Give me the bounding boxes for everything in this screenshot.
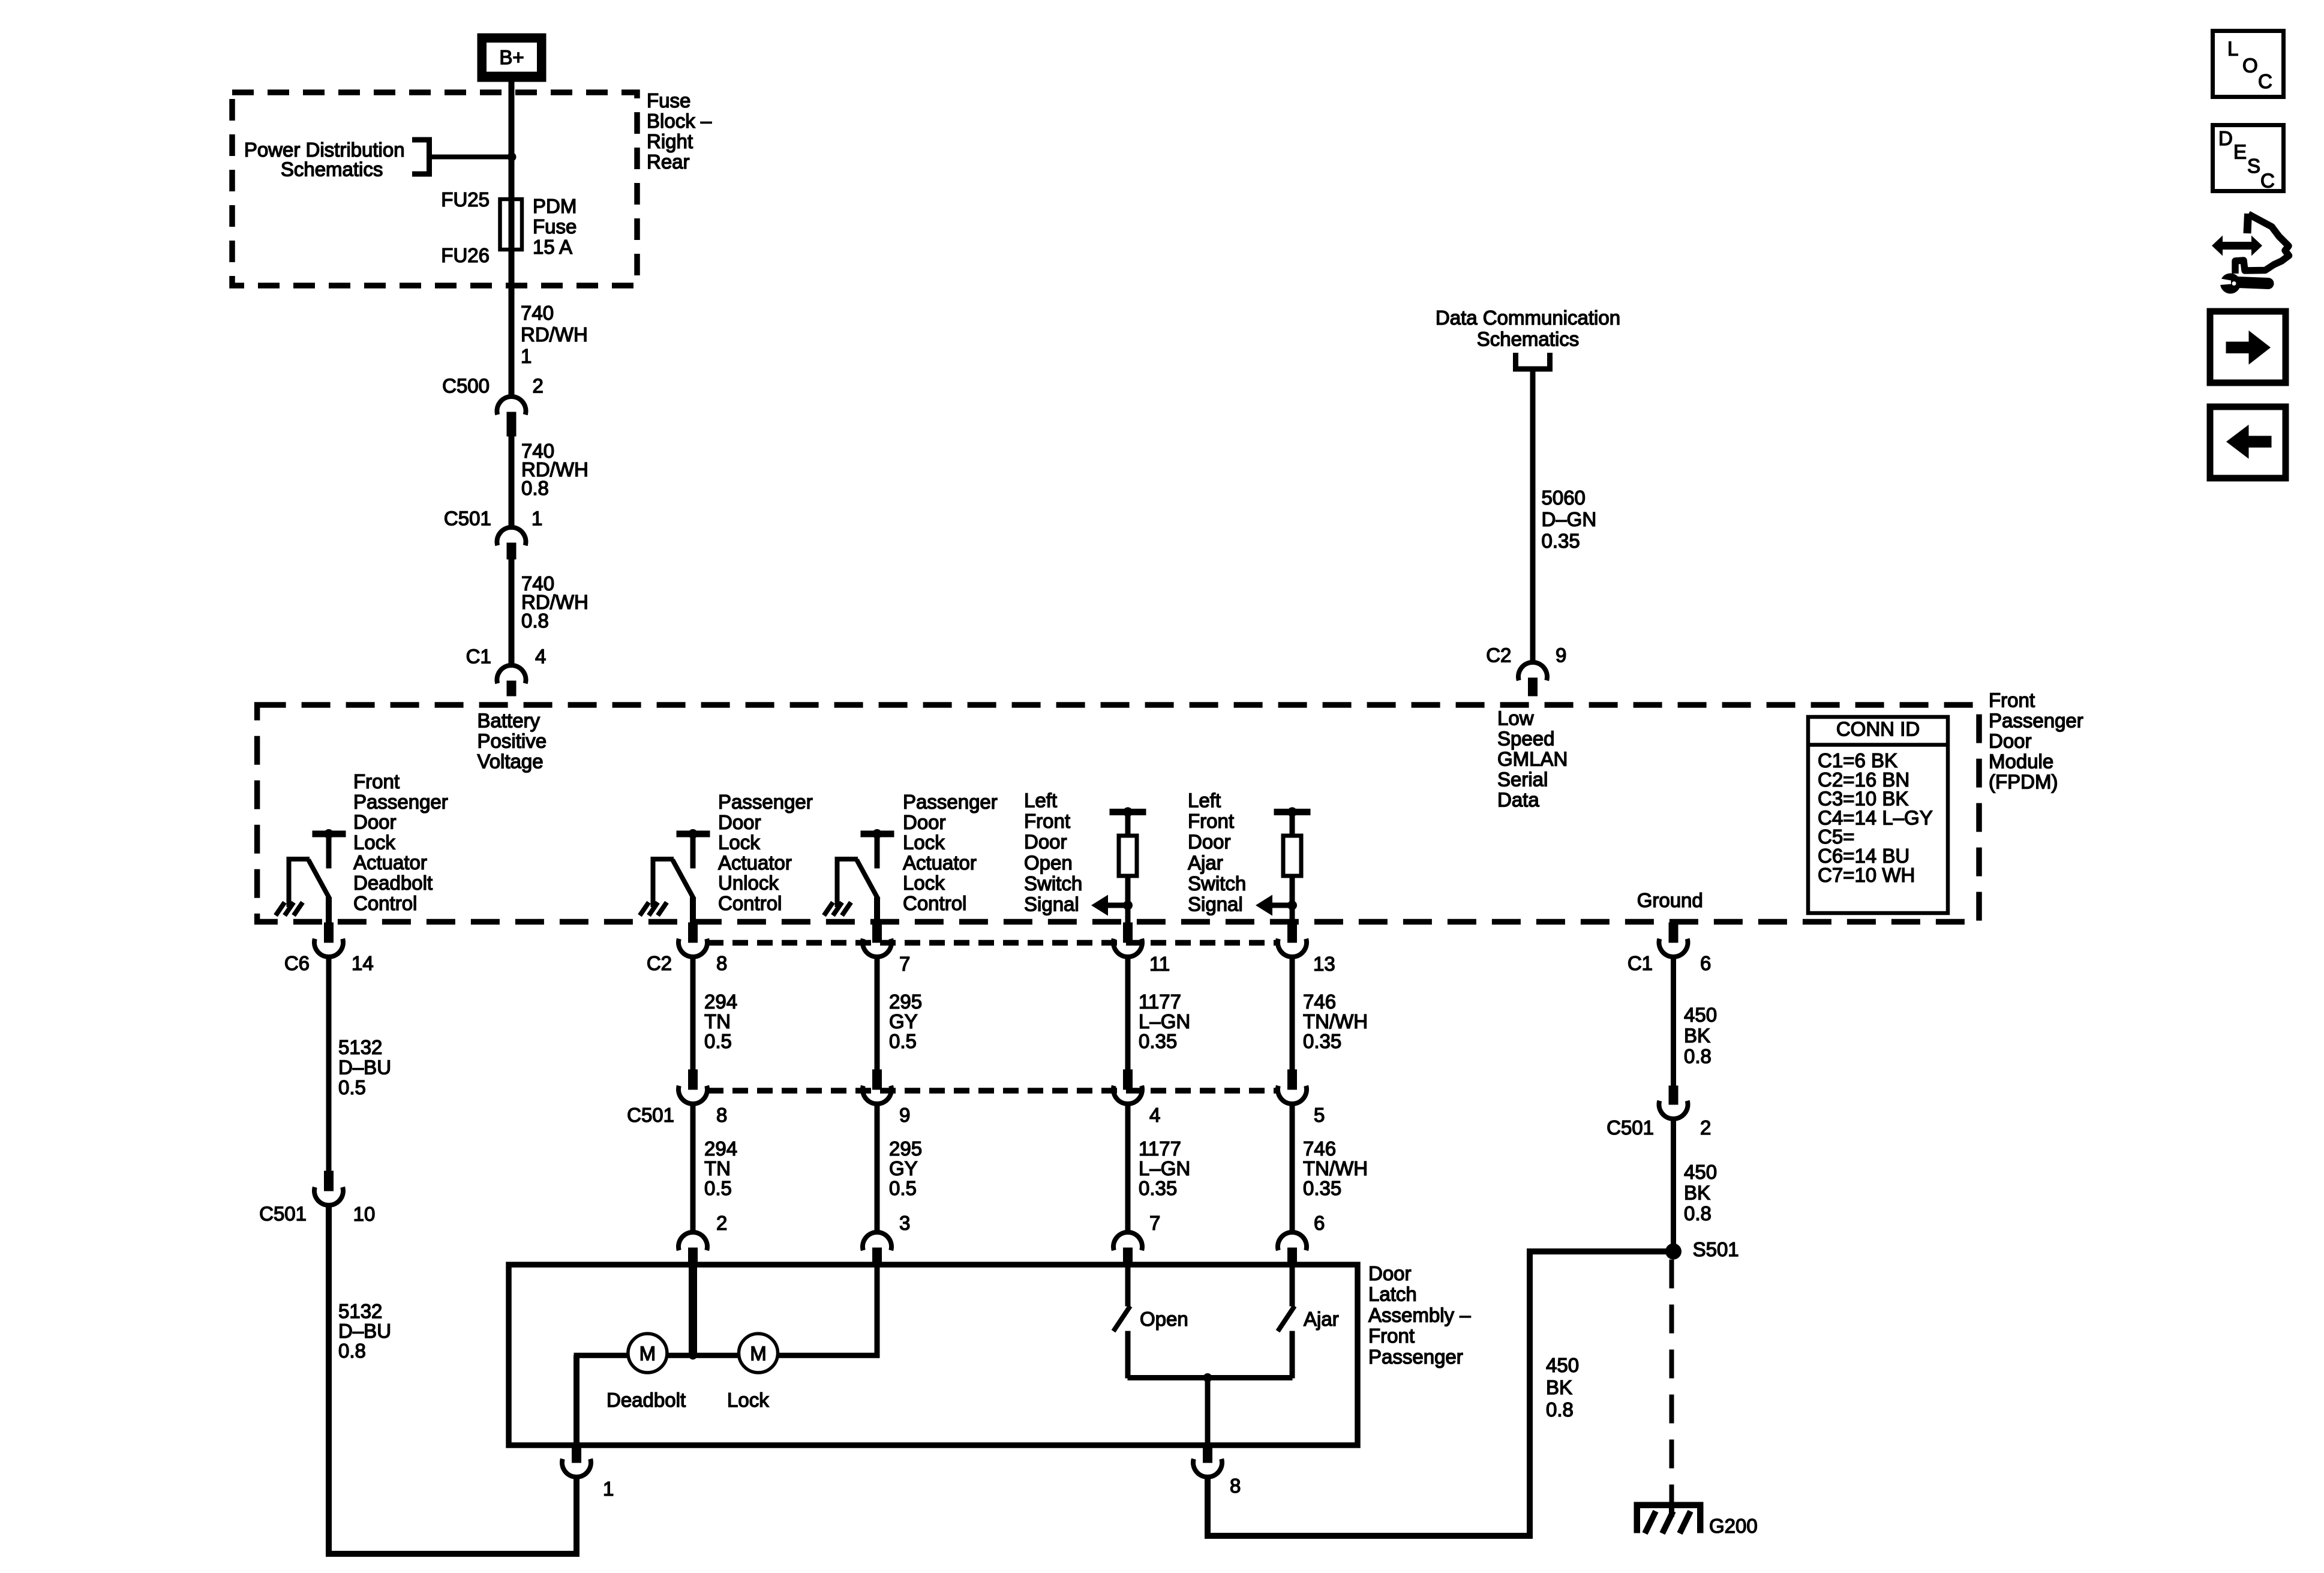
wire 1177 C501 to latch pin 7: [1125, 1104, 1130, 1232]
svg-text:BK: BK: [1684, 1025, 1710, 1047]
svg-text:Open: Open: [1024, 851, 1073, 873]
label pin 8 of C501: [716, 1104, 727, 1126]
wire: pin 1 drop: [574, 1477, 580, 1557]
svg-text:Switch: Switch: [1024, 872, 1082, 894]
label latch pin 8: [1230, 1475, 1241, 1497]
label: wire 450 BK 0.8: [1684, 1004, 1717, 1067]
svg-text:7: 7: [1149, 1212, 1160, 1234]
svg-text:746: 746: [1303, 1137, 1336, 1160]
svg-text:Front: Front: [1989, 689, 2035, 712]
connector C501 pin 8: [678, 1070, 707, 1104]
svg-text:450: 450: [1684, 1004, 1717, 1026]
svg-text:C1: C1: [1628, 952, 1653, 974]
svg-text:Actuator: Actuator: [353, 851, 427, 873]
svg-text:Fuse: Fuse: [647, 89, 690, 112]
label latch pin 6: [1314, 1212, 1325, 1234]
ground G200 symbol: [1634, 1502, 1703, 1533]
label: wire 746 TN/WH 0.35 (2): [1303, 1137, 1368, 1199]
connector C2 pin 8: [678, 923, 707, 957]
label: Ajar: [1304, 1308, 1339, 1330]
label: wire 5132 D-BU 0.5: [338, 1036, 391, 1098]
svg-text:Module: Module: [1989, 751, 2053, 773]
wire: deadbolt motor left lead: [574, 1353, 629, 1445]
label FU25: [441, 188, 490, 211]
label: Low Speed GMLAN Serial Data: [1497, 707, 1568, 810]
svg-text:0.5: 0.5: [889, 1030, 917, 1052]
connector C1 pin 4 (FPDM): [497, 665, 526, 696]
label: Data Communication Schematics: [1436, 307, 1620, 350]
svg-text:450: 450: [1684, 1161, 1717, 1183]
label: wire 1177 L-GN 0.35: [1139, 990, 1190, 1052]
label: Front Passenger Door Lock Actuator Deadbolt Control: [353, 770, 448, 914]
svg-text:0.8: 0.8: [521, 477, 549, 499]
svg-text:Lock: Lock: [903, 831, 945, 854]
label: Left Front Door Ajar Switch Signal: [1188, 789, 1246, 915]
label: wire 746 TN/WH 0.35: [1303, 990, 1368, 1052]
label pin 9 of C2: [1556, 644, 1566, 667]
svg-text:Control: Control: [903, 892, 966, 914]
label pin 4 of C1: [535, 646, 546, 668]
svg-text:C501: C501: [444, 508, 491, 530]
junction dot motors: [689, 1351, 697, 1359]
FPDM module dashed outline: [257, 705, 1979, 922]
connector C501 pin 10: [314, 1171, 343, 1205]
svg-text:PDM: PDM: [533, 195, 577, 217]
svg-text:Control: Control: [718, 892, 782, 914]
svg-text:Lock: Lock: [903, 872, 945, 894]
svg-text:Fuse: Fuse: [533, 215, 577, 238]
actuator driver: deadbolt control (switch+ground): [276, 829, 346, 924]
label C2: [647, 952, 672, 974]
svg-text:O: O: [2242, 55, 2258, 77]
label: wire 740 RD/WH 1: [521, 302, 588, 367]
label pin 4 of C501: [1149, 1104, 1160, 1126]
wire: S501 horizontal: [1527, 1249, 1674, 1254]
svg-text:Passenger: Passenger: [903, 791, 998, 813]
svg-text:0.8: 0.8: [1684, 1202, 1712, 1224]
motor M deadbolt: [628, 1334, 667, 1373]
svg-text:C501: C501: [627, 1104, 674, 1126]
svg-text:D: D: [2218, 127, 2233, 149]
svg-text:G200: G200: [1709, 1515, 1758, 1537]
svg-text:C2: C2: [1486, 644, 1511, 667]
svg-text:13: 13: [1313, 953, 1335, 975]
svg-text:S: S: [2247, 155, 2260, 177]
wire: junction to latch pin 8: [1205, 1378, 1210, 1446]
label: wire 450 BK 0.8 (3): [1546, 1354, 1579, 1421]
label: wire 740 RD/WH 0.8: [521, 440, 588, 499]
label: wire 5132 D-BU 0.8: [338, 1300, 391, 1362]
latch connector pin 1: [562, 1445, 591, 1477]
svg-text:BK: BK: [1546, 1376, 1572, 1398]
label latch pin 7: [1149, 1212, 1160, 1234]
label: Lock: [727, 1389, 769, 1411]
latch connector pin 2: [678, 1232, 707, 1267]
connector C2 pin 9 (FPDM): [1518, 662, 1547, 696]
icon forward arrow box: [2210, 311, 2286, 383]
label C501: [444, 508, 491, 530]
svg-text:0.35: 0.35: [1139, 1177, 1177, 1199]
label latch pin 1: [603, 1478, 614, 1500]
actuator driver: lock control (switch+ground): [824, 829, 894, 924]
svg-text:14: 14: [352, 952, 374, 974]
svg-text:4: 4: [1149, 1104, 1160, 1126]
splice S501: [1665, 1244, 1682, 1260]
label C2: [1486, 644, 1511, 667]
svg-text:Door: Door: [1024, 831, 1067, 853]
svg-text:Passenger: Passenger: [718, 791, 813, 813]
svg-text:746: 746: [1303, 990, 1336, 1013]
inner connector dashed line (C2 row): [708, 940, 1278, 946]
icon back arrow box: [2210, 407, 2286, 478]
wire 5132 C6 to C501: [326, 957, 331, 1171]
svg-text:L–GN: L–GN: [1139, 1157, 1190, 1179]
label pin 11: [1149, 953, 1170, 975]
svg-text:0.8: 0.8: [1684, 1045, 1712, 1067]
wire: 740 RD/WH C501 to C1: [509, 559, 514, 665]
icon LOC box: [2213, 31, 2284, 97]
svg-text:GY: GY: [889, 1157, 918, 1179]
svg-text:Control: Control: [353, 892, 417, 914]
connector C1 pin 6 (ground): [1659, 923, 1688, 957]
svg-text:FU26: FU26: [441, 244, 490, 266]
wire: B+ down through fuse block: [509, 82, 514, 397]
svg-text:M: M: [750, 1343, 767, 1365]
svg-text:294: 294: [704, 990, 737, 1013]
svg-text:Rear: Rear: [647, 151, 690, 173]
svg-text:E: E: [2233, 141, 2247, 163]
connector C501 pin 4: [1113, 1070, 1142, 1104]
switch: door ajar: [1278, 1267, 1295, 1378]
switch signal input: left front door ajar: [1256, 807, 1310, 925]
fuse block dashed outline: [232, 92, 637, 286]
wire: bottom right horizontal: [1205, 1533, 1533, 1539]
svg-text:Signal: Signal: [1024, 893, 1079, 915]
latch connector pin 7: [1113, 1232, 1142, 1267]
label C1: [1628, 952, 1653, 974]
wire: pin 8 drop: [1205, 1477, 1211, 1539]
label pin 6: [1700, 952, 1711, 974]
label: wire 5060 D-GN 0.35: [1542, 487, 1597, 552]
connector C501 pin 2 (ground): [1659, 1086, 1688, 1119]
icon DESC box: [2213, 125, 2284, 192]
wire 450 C1 to C501: [1671, 957, 1676, 1086]
label pin 7: [899, 953, 910, 975]
svg-text:Data: Data: [1497, 788, 1539, 810]
label pin 8: [716, 952, 727, 974]
svg-text:Passenger: Passenger: [353, 791, 448, 813]
svg-text:C501: C501: [1607, 1116, 1654, 1139]
label: Passenger Door Lock Actuator Unlock Control: [718, 791, 813, 914]
svg-text:295: 295: [889, 1137, 922, 1160]
inner connector dashed line (C501 row): [708, 1088, 1278, 1094]
bracket to power distribution schematics: [412, 140, 430, 174]
svg-text:TN: TN: [704, 1010, 731, 1032]
svg-text:Lock: Lock: [353, 831, 395, 853]
svg-text:2: 2: [716, 1212, 727, 1234]
svg-text:9: 9: [899, 1104, 910, 1126]
svg-text:450: 450: [1546, 1354, 1579, 1376]
svg-text:Open: Open: [1140, 1308, 1188, 1330]
svg-text:Door: Door: [1368, 1262, 1412, 1284]
svg-text:1177: 1177: [1139, 1137, 1181, 1160]
connector C6 pin 14: [314, 923, 343, 957]
label FU26: [441, 244, 490, 266]
svg-text:Deadbolt: Deadbolt: [353, 872, 433, 894]
svg-text:Front: Front: [1024, 810, 1070, 832]
label: Battery Positive Voltage: [478, 710, 547, 773]
label G200: [1709, 1515, 1758, 1537]
svg-text:4: 4: [535, 646, 546, 668]
svg-text:Latch: Latch: [1368, 1283, 1417, 1305]
label latch pin 2: [716, 1212, 727, 1234]
svg-text:Right: Right: [647, 130, 693, 152]
label: Door Latch Assembly - Front Passenger: [1368, 1262, 1471, 1368]
svg-text:Door: Door: [1989, 730, 2032, 752]
wire 295 C501 to latch pin 3: [875, 1104, 879, 1232]
svg-text:Door: Door: [1188, 831, 1231, 853]
svg-text:10: 10: [353, 1203, 376, 1225]
svg-text:C: C: [2260, 170, 2275, 192]
svg-text:295: 295: [889, 990, 922, 1013]
svg-text:S501: S501: [1693, 1238, 1739, 1260]
svg-text:Front: Front: [1188, 810, 1234, 832]
svg-text:Door: Door: [718, 811, 761, 833]
svg-text:D–BU: D–BU: [338, 1056, 391, 1079]
label: Fuse Block - Right Rear: [647, 89, 712, 173]
svg-text:Lock: Lock: [727, 1389, 769, 1411]
icon car panel with two-way arrow and wrench: [2212, 214, 2289, 294]
svg-text:C501: C501: [259, 1203, 307, 1225]
label pin 13: [1313, 953, 1335, 975]
wire: power distribution tap: [429, 155, 512, 159]
svg-text:Speed: Speed: [1497, 727, 1554, 749]
svg-text:6: 6: [1314, 1212, 1325, 1234]
svg-text:3: 3: [899, 1212, 910, 1234]
svg-text:Door: Door: [903, 811, 946, 833]
motor M lock: [739, 1334, 778, 1373]
wire 746 C2 to C501: [1290, 957, 1295, 1070]
svg-text:8: 8: [716, 1104, 727, 1126]
svg-text:0.5: 0.5: [889, 1177, 917, 1199]
label: wire 295 GY 0.5 (2): [889, 1137, 922, 1199]
label: Left Front Door Open Switch Signal: [1024, 789, 1082, 915]
svg-text:Voltage: Voltage: [478, 751, 544, 773]
label pin 14: [352, 952, 374, 974]
svg-text:0.5: 0.5: [704, 1030, 732, 1052]
svg-text:Passenger: Passenger: [1989, 710, 2083, 732]
svg-text:5132: 5132: [338, 1300, 382, 1322]
wire 295 C2 to C501: [875, 957, 879, 1070]
fuse FU25/FU26 PDM Fuse 15A body: [500, 199, 523, 250]
label: PDM Fuse 15 A: [533, 195, 577, 258]
label C1: [466, 646, 491, 668]
svg-text:B+: B+: [499, 46, 524, 68]
label: wire 450 BK 0.8 (2): [1684, 1161, 1717, 1224]
svg-text:740: 740: [521, 302, 554, 324]
svg-text:Ajar: Ajar: [1188, 851, 1223, 873]
svg-text:0.35: 0.35: [1303, 1030, 1341, 1052]
label pin 2 of C501: [1700, 1116, 1711, 1139]
svg-text:Battery: Battery: [478, 710, 541, 732]
svg-text:Deadbolt: Deadbolt: [606, 1389, 686, 1411]
svg-text:Ajar: Ajar: [1304, 1308, 1339, 1330]
svg-text:Low: Low: [1497, 707, 1534, 729]
wire 294 C2 to C501: [690, 957, 695, 1070]
label: Open: [1140, 1308, 1188, 1330]
svg-text:Data Communication: Data Communication: [1436, 307, 1620, 329]
label C501 (ground side): [1607, 1116, 1654, 1139]
svg-text:L–GN: L–GN: [1139, 1010, 1190, 1032]
svg-text:Serial: Serial: [1497, 768, 1548, 790]
svg-text:Schematics: Schematics: [1477, 328, 1580, 350]
wire 746 C501 to latch pin 6: [1290, 1104, 1295, 1232]
junction dot switches: [1203, 1373, 1212, 1382]
svg-text:CONN ID: CONN ID: [1836, 718, 1920, 740]
connector C501 pin 5: [1278, 1070, 1307, 1104]
svg-text:C2: C2: [647, 952, 672, 974]
label: Power Distribution Schematics: [244, 139, 405, 181]
svg-text:GY: GY: [889, 1010, 918, 1032]
svg-text:5060: 5060: [1542, 487, 1586, 509]
svg-text:11: 11: [1149, 953, 1170, 975]
svg-text:Actuator: Actuator: [718, 851, 792, 873]
svg-text:M: M: [639, 1343, 656, 1365]
switch: door open: [1113, 1267, 1130, 1378]
wire: riser to S501: [1527, 1249, 1533, 1539]
label pin 1 of C501: [532, 508, 542, 530]
svg-text:8: 8: [1230, 1475, 1241, 1497]
dashed wire S501 to G200: [1670, 1260, 1674, 1503]
svg-text:RD/WH: RD/WH: [521, 323, 588, 346]
svg-text:Unlock: Unlock: [718, 872, 779, 894]
svg-text:Door: Door: [353, 811, 397, 833]
svg-text:Left: Left: [1188, 789, 1221, 812]
power terminal B+ box: [478, 34, 546, 82]
svg-text:8: 8: [716, 952, 727, 974]
svg-text:D–BU: D–BU: [338, 1320, 391, 1342]
svg-text:5132: 5132: [338, 1036, 382, 1058]
svg-text:0.8: 0.8: [1546, 1398, 1574, 1421]
connector C500 pin 2: [497, 397, 526, 436]
svg-text:2: 2: [533, 375, 544, 397]
latch connector pin 6: [1278, 1232, 1307, 1267]
bracket to data communication schematics: [1516, 353, 1550, 369]
connector C501 pin 1: [497, 527, 526, 559]
latch connector pin 8: [1193, 1445, 1222, 1477]
switch signal input: left front door open: [1091, 807, 1146, 925]
svg-text:Actuator: Actuator: [903, 851, 977, 873]
wire: bottom left horizontal: [326, 1551, 580, 1557]
wire: between motors: [666, 1353, 739, 1358]
svg-text:C7=10 WH: C7=10 WH: [1818, 864, 1915, 886]
svg-text:1177: 1177: [1139, 990, 1181, 1013]
svg-text:TN/WH: TN/WH: [1303, 1157, 1368, 1179]
svg-text:0.8: 0.8: [521, 610, 549, 632]
junction dot at B+ feed: [508, 152, 517, 161]
label: Ground: [1637, 889, 1703, 911]
svg-text:0.35: 0.35: [1542, 530, 1580, 552]
wire: open switch to junction: [1128, 1376, 1208, 1380]
label C500: [442, 375, 490, 397]
label: wire 1177 L-GN 0.35 (2): [1139, 1137, 1190, 1199]
wire 294 C501 to latch pin 2: [690, 1104, 695, 1232]
svg-text:7: 7: [899, 953, 910, 975]
wire: 5132 D-BU 0.8 left drop: [326, 1205, 332, 1557]
label: wire 294 TN 0.5: [704, 990, 737, 1052]
door latch assembly box: [509, 1265, 1358, 1445]
wire 1177 C2 to C501: [1125, 957, 1130, 1070]
svg-text:C6: C6: [284, 952, 310, 974]
svg-text:Power Distribution: Power Distribution: [244, 139, 405, 161]
svg-text:15 A: 15 A: [533, 236, 572, 258]
svg-text:Passenger: Passenger: [1368, 1346, 1463, 1368]
connector C2 pin 13: [1278, 923, 1307, 957]
svg-text:Signal: Signal: [1188, 893, 1243, 915]
label pin 2 of C500: [533, 375, 544, 397]
label: Deadbolt: [606, 1389, 686, 1411]
svg-text:1: 1: [532, 508, 542, 530]
svg-text:2: 2: [1700, 1116, 1711, 1139]
label S501: [1693, 1238, 1739, 1260]
svg-text:6: 6: [1700, 952, 1711, 974]
svg-text:Left: Left: [1024, 789, 1057, 812]
svg-text:0.5: 0.5: [338, 1076, 366, 1098]
svg-text:Lock: Lock: [718, 831, 760, 854]
svg-text:Ground: Ground: [1637, 889, 1703, 911]
svg-text:C500: C500: [442, 375, 490, 397]
svg-text:D–GN: D–GN: [1542, 508, 1597, 530]
label C501: [627, 1104, 674, 1126]
svg-text:L: L: [2227, 38, 2238, 60]
svg-text:C1: C1: [466, 646, 491, 668]
svg-text:Block –: Block –: [647, 110, 712, 132]
connector C501 pin 9: [863, 1070, 891, 1104]
wire: latch pin 2 to motors junction: [689, 1267, 697, 1355]
svg-text:Front: Front: [1368, 1325, 1415, 1347]
svg-text:TN: TN: [704, 1157, 731, 1179]
svg-text:1: 1: [521, 345, 532, 367]
wire: ajar switch to junction: [1208, 1376, 1292, 1380]
svg-text:5: 5: [1314, 1104, 1325, 1126]
label latch pin 3: [899, 1212, 910, 1234]
latch connector pin 3: [863, 1232, 891, 1267]
wire 450 C501 to S501: [1671, 1119, 1676, 1247]
wire: lock motor to pin 3 riser: [777, 1267, 879, 1358]
label C501 (col 10): [259, 1203, 307, 1225]
svg-text:0.8: 0.8: [338, 1340, 366, 1362]
label: Passenger Door Lock Actuator Lock Control: [903, 791, 998, 914]
svg-text:Switch: Switch: [1188, 872, 1246, 894]
CONN ID table: [1806, 717, 1950, 913]
svg-text:(FPDM): (FPDM): [1989, 771, 2058, 793]
svg-text:294: 294: [704, 1137, 737, 1160]
label C6: [284, 952, 310, 974]
svg-text:9: 9: [1556, 644, 1566, 667]
connector C2 pin 7: [863, 923, 891, 957]
wire: 740 RD/WH C500 to C501: [509, 436, 514, 527]
svg-text:0.35: 0.35: [1303, 1177, 1341, 1199]
label: wire 740 RD/WH 0.8 (2): [521, 572, 588, 632]
label pin 10 of C501: [353, 1203, 376, 1225]
svg-text:Front: Front: [353, 770, 400, 792]
svg-text:0.5: 0.5: [704, 1177, 732, 1199]
svg-text:1: 1: [603, 1478, 614, 1500]
label pin 9 of C501: [899, 1104, 910, 1126]
label: wire 294 TN 0.5 (2): [704, 1137, 737, 1199]
svg-text:C: C: [2258, 70, 2272, 92]
label: wire 295 GY 0.5: [889, 990, 922, 1052]
